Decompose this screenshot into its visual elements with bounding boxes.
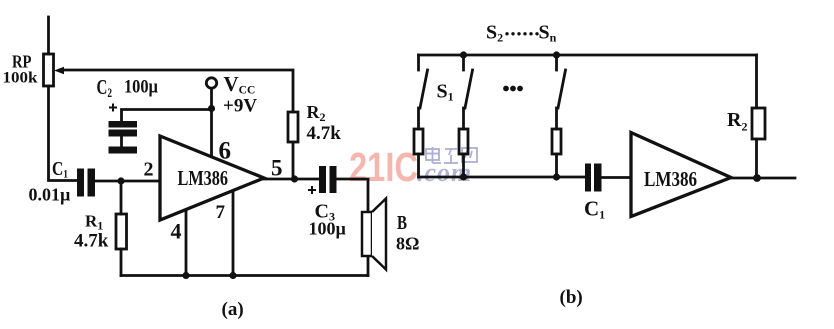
ground bar under C2 [109,147,138,154]
wire R1 top [120,181,123,214]
labels circuit a [3,52,420,321]
wire pin 4 [185,208,188,276]
resistor R2 (b) body [752,108,765,139]
wire S2 to resistor [462,108,465,129]
wire rail down to R2 (b) [755,55,758,108]
svg-text:+9V: +9V [223,96,257,117]
wire R2 bottom to output node [292,142,295,179]
svg-text:R2: R2 [307,102,326,124]
op-amp U1 LM386 (a) [160,136,264,220]
resistor R2 (a) body [288,112,298,142]
switch S2 blade [465,70,473,108]
svg-text:4.7k: 4.7k [74,231,109,252]
svg-text:LM386: LM386 [178,166,229,190]
wire pin 6 [210,108,213,156]
svg-text:7: 7 [216,202,226,223]
resistor body branch 2 [459,129,468,154]
resistor R1 body [116,214,127,249]
op-amp U2 LM386 (b) [631,133,731,217]
svg-text:VCC: VCC [224,72,256,97]
wire C2 middle stem [120,137,123,148]
wire speaker bottom [367,256,370,276]
wire node to C2 top [122,110,212,122]
wire top rail (b) [419,54,757,57]
wire C3 to speaker [337,179,369,212]
svg-text:100µ: 100µ [309,219,347,239]
ellipsis dots between switches [503,86,509,92]
capacitor C1 (a) plates [77,169,95,197]
wire R2b to output [755,139,758,178]
svg-text:5: 5 [271,156,283,181]
wire ground rail (a) [121,274,368,277]
svg-text:6: 6 [219,138,232,165]
switch S2 branch: stub [462,55,465,70]
wire Vcc down to node [210,89,213,109]
svg-text:R2: R2 [727,109,747,134]
svg-text:S1: S1 [437,81,454,104]
wire R1 bottom to ground rail [120,249,123,276]
speaker B [362,199,386,270]
resistor body branch 1 [414,129,423,154]
C2 plus sign [109,104,117,112]
node junction dots (a) [117,105,298,279]
svg-text:LM386: LM386 [644,167,697,191]
wire C1 right to pin 2 [95,180,161,183]
wire S1 to resistor [417,108,420,129]
wire pin 7 [232,190,235,276]
wire pin 5 output [264,178,319,181]
svg-text:C2: C2 [97,75,113,100]
svg-text:C1: C1 [584,197,605,222]
watermark 21IC [349,144,418,190]
wire output (b) [731,177,795,180]
svg-text:S2: S2 [486,22,503,45]
labels circuit b [437,22,748,309]
wire RP bottom to C1 [49,86,78,181]
svg-text:C1: C1 [52,158,68,181]
wire bottom rail (b) [419,176,586,179]
svg-text:(a): (a) [222,299,244,320]
switch Sn branch: stub [555,55,558,70]
svg-text:B: B [397,212,407,234]
switch Sn blade [558,70,566,108]
svg-text:8Ω: 8Ω [396,234,419,254]
capacitor C3 plates [319,166,337,193]
watermark dianziwang glyphs [426,147,477,163]
node junction dots (b) [460,51,761,182]
wiper arrow of RP [54,67,64,74]
svg-text:2: 2 [144,159,154,181]
wire branch1 to rail [417,154,420,177]
svg-text:100k: 100k [3,70,38,87]
svg-text:100µ: 100µ [124,77,158,98]
svg-text:0.01µ: 0.01µ [29,185,72,205]
capacitor C1 (b) plates [585,164,602,192]
dots of S2...Sn [505,32,538,35]
capacitor C2 plates [109,121,138,137]
svg-text:(b): (b) [560,287,583,308]
wire branch2 to rail [462,154,465,177]
watermark .com script [417,158,472,187]
svg-text:R1: R1 [85,212,103,233]
svg-text:4: 4 [171,219,182,244]
svg-text:RP: RP [12,52,32,72]
potentiometer RP body [44,54,54,86]
C3 plus sign [308,186,316,194]
resistor body branch n [552,129,561,154]
wire C1b to amp [602,176,632,179]
wire RP wiper to R2 top [60,70,293,112]
wire input terminal (a) [47,17,50,54]
switch S1 blade [420,70,428,108]
Vcc terminal circle [206,78,216,88]
svg-text:21IC: 21IC [349,144,418,190]
svg-text:4.7k: 4.7k [307,123,342,144]
wire Sn to resistor [555,108,558,129]
wire branch n to rail [555,154,558,177]
switch S1 branch: stub [417,55,420,70]
svg-text:Sn: Sn [539,22,557,45]
